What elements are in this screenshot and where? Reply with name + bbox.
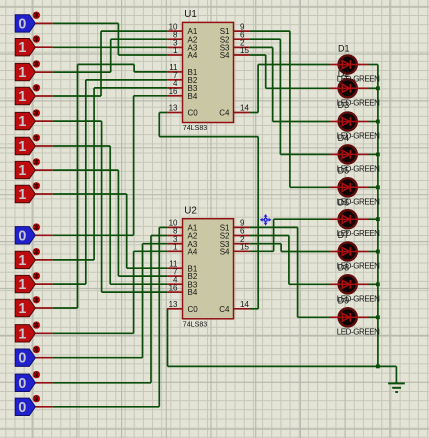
svg-text:S4: S4	[220, 247, 230, 256]
svg-text:0: 0	[18, 400, 26, 416]
U2 pin number 11 (B1)	[169, 259, 178, 268]
svg-text:14: 14	[240, 104, 249, 113]
logic state input 8 (value 1)	[15, 182, 53, 203]
D2 value label LED-GREEN	[337, 98, 380, 107]
U2 pin number 8 (A2)	[173, 227, 178, 236]
svg-text:A4: A4	[188, 51, 198, 60]
svg-text:0: 0	[18, 376, 26, 392]
U1 pin number 14 (C4)	[240, 104, 249, 113]
wire U2.S1 to LED D9	[250, 227, 330, 317]
logic state input 4 (value 1)	[15, 84, 53, 105]
svg-text:D8: D8	[338, 263, 350, 273]
junction dot at bus row D5	[376, 185, 380, 189]
junction dot at bus row D2	[376, 86, 380, 90]
svg-text:14: 14	[240, 300, 249, 309]
svg-text:0: 0	[18, 351, 26, 367]
svg-text:LED-GREEN: LED-GREEN	[337, 327, 380, 336]
wire input1 to U1.A4	[53, 23, 167, 55]
junction dot at bus row D4	[376, 153, 380, 157]
svg-text:U1: U1	[184, 9, 197, 20]
U1 pin stubs	[167, 31, 250, 112]
wire input9 to U1.B4	[53, 96, 167, 236]
svg-text:C4: C4	[219, 305, 230, 314]
svg-text:15: 15	[240, 46, 249, 55]
U1 pin name B4	[188, 92, 198, 101]
wire input7 to U2.B2	[53, 170, 167, 276]
svg-text:B4: B4	[188, 92, 198, 101]
U1 pin number 8 (A2)	[173, 30, 178, 39]
U2 pin name A3	[188, 240, 198, 249]
wire input16 to U2.A1	[53, 227, 167, 406]
U1 pin number 11 (B1)	[169, 63, 178, 72]
LED D7	[330, 242, 369, 260]
junction dot at bus row D7	[376, 250, 380, 254]
wire U2.S2 to LED D8	[250, 236, 330, 285]
U2 pin name A4	[188, 247, 198, 256]
logic state input 16 (value 0)	[15, 395, 53, 416]
logic state input 11 (value 1)	[15, 272, 53, 293]
U1 pin name B2	[188, 76, 198, 85]
U1 pin number 6 (S2)	[240, 30, 245, 39]
U1 pin name B3	[188, 84, 198, 93]
junction dot bus-ground	[376, 365, 380, 369]
wire input12 to U1.B1	[53, 64, 167, 308]
U2 pin stubs	[167, 227, 250, 308]
svg-text:1: 1	[18, 89, 26, 105]
U2 pin number 4 (B3)	[173, 275, 178, 284]
wire U1.S2 to LED D4	[250, 39, 330, 154]
logic state input 15 (value 0)	[15, 371, 53, 392]
svg-text:1: 1	[18, 253, 26, 269]
wire input6 to U2.B3	[53, 146, 167, 284]
U1 pin number 16 (B4)	[169, 87, 178, 96]
U2 pin number 1 (A4)	[173, 243, 178, 252]
svg-text:1: 1	[18, 187, 26, 203]
wire input4 to U1.A1	[53, 31, 167, 96]
svg-text:74LS83: 74LS83	[183, 320, 208, 328]
wire input15 to U2.A2	[53, 236, 167, 383]
svg-text:1: 1	[18, 114, 26, 130]
U2 pin name A2	[188, 232, 198, 241]
U1 pin name S3	[220, 44, 230, 53]
logic state input 14 (value 0)	[15, 346, 53, 367]
svg-text:1: 1	[173, 243, 178, 252]
svg-text:D9: D9	[338, 296, 350, 306]
D5 value label LED-GREEN	[337, 197, 380, 206]
logic state input 10 (value 1)	[15, 248, 53, 269]
U1 value label 74LS83	[183, 124, 208, 132]
U2 pin name S2	[220, 232, 230, 241]
junction dot at bus row D9	[376, 315, 380, 319]
U2 pin name B3	[188, 280, 198, 289]
U2 value label 74LS83	[183, 320, 208, 328]
svg-text:D5: D5	[338, 166, 350, 176]
svg-text:A4: A4	[188, 247, 198, 256]
wire U1.S4 to LED D2	[250, 55, 330, 88]
wire input11 to U1.B2	[53, 80, 167, 284]
wire input13 to U2.A4	[53, 251, 167, 333]
svg-text:16: 16	[169, 87, 178, 96]
D2 reference label	[338, 69, 350, 79]
svg-text:D3: D3	[338, 100, 350, 110]
wire U2.C4 to U1.C0 (end-around cascade)	[159, 113, 258, 309]
junction dot at bus row D6	[376, 217, 380, 221]
D6 reference label	[338, 198, 350, 208]
LED D9	[330, 308, 369, 326]
logic state input 7 (value 1)	[15, 158, 53, 179]
U1 pin number 2 (S3)	[240, 39, 245, 48]
U2 pin number 6 (S2)	[240, 227, 245, 236]
junction dot at bus row D8	[376, 282, 380, 286]
svg-text:D4: D4	[338, 133, 350, 143]
D7 value label LED-GREEN	[337, 262, 380, 271]
wire U1.S1 to LED D5	[250, 31, 330, 187]
LED D1	[330, 55, 369, 73]
wire LED D7 cathode to bus	[369, 251, 378, 253]
U2 pin name B2	[188, 272, 198, 281]
D6 value label LED-GREEN	[337, 229, 380, 238]
D8 reference label	[338, 263, 350, 273]
U2 pin name S3	[220, 240, 230, 249]
U2 reference label	[184, 206, 197, 217]
U2 pin number 9 (S1)	[240, 219, 245, 228]
svg-text:13: 13	[169, 300, 178, 309]
LED D8	[330, 275, 369, 293]
wire U2.S4 to LED D6	[250, 219, 330, 251]
D3 reference label	[338, 100, 350, 110]
U1 pin name C0	[188, 109, 199, 118]
wire LED D8 cathode to bus	[369, 283, 378, 285]
wire LED D9 cathode to bus	[369, 316, 378, 318]
wire input5 to U2.B4	[53, 121, 167, 292]
D9 value label LED-GREEN	[337, 327, 380, 336]
LED D2	[330, 79, 369, 97]
U2 pin number 13 (C0)	[169, 300, 178, 309]
logic state input 12 (value 1)	[15, 296, 53, 317]
svg-text:U2: U2	[184, 206, 197, 217]
wire LED cathode bus	[369, 65, 378, 367]
svg-text:0: 0	[18, 16, 26, 32]
svg-text:0: 0	[18, 228, 26, 244]
svg-text:13: 13	[169, 104, 178, 113]
ground	[388, 383, 405, 392]
svg-text:C0: C0	[188, 109, 199, 118]
U1 pin name S4	[220, 51, 230, 60]
svg-text:D7: D7	[338, 230, 350, 240]
U1 pin number 13 (C0)	[169, 104, 178, 113]
D9 reference label	[338, 296, 350, 306]
4-bit adder U2 74LS83 body	[183, 219, 234, 319]
svg-text:C0: C0	[188, 305, 199, 314]
U2 pin name C0	[188, 305, 199, 314]
D4 value label LED-GREEN	[337, 164, 380, 173]
svg-text:74LS83: 74LS83	[183, 124, 208, 132]
4-bit adder U1 74LS83 body	[183, 22, 234, 122]
U1 pin number 4 (B3)	[173, 79, 178, 88]
svg-text:16: 16	[169, 283, 178, 292]
U2 pin number 3 (A3)	[173, 235, 178, 244]
U2 pin name C4	[219, 305, 230, 314]
D7 reference label	[338, 230, 350, 240]
U1 pin number 1 (A4)	[173, 46, 178, 55]
U2 pin name B4	[188, 288, 198, 297]
junction dot at bus row D3	[376, 120, 380, 124]
U2 pin number 7 (B2)	[173, 267, 178, 276]
logic state input 6 (value 1)	[15, 134, 53, 155]
U2 pin name S4	[220, 247, 230, 256]
wire U1.C4 to LED D1	[250, 65, 330, 113]
U2 pin number 14 (C4)	[240, 300, 249, 309]
svg-text:1: 1	[173, 46, 178, 55]
U1 reference label	[184, 9, 197, 20]
LED D4	[330, 145, 369, 163]
wire input3 to U1.A2	[53, 39, 167, 72]
U1 pin number 15 (S4)	[240, 46, 249, 55]
D4 reference label	[338, 133, 350, 143]
U2 pin name A1	[188, 224, 198, 233]
svg-text:1: 1	[18, 65, 26, 81]
svg-text:D1: D1	[338, 44, 350, 54]
D1 reference label	[338, 44, 350, 54]
U1 pin name A1	[188, 27, 198, 36]
svg-text:D2: D2	[338, 69, 350, 79]
svg-text:1: 1	[18, 277, 26, 293]
U2 pin name B1	[188, 264, 198, 273]
U1 pin number 10 (A1)	[169, 22, 178, 31]
logic state input 1 (value 0)	[15, 12, 53, 33]
wire input2 to U1.A3	[53, 46, 167, 48]
U1 pin number 9 (S1)	[240, 22, 245, 31]
wire U1.S3 to LED D3	[250, 47, 330, 121]
svg-text:15: 15	[240, 243, 249, 252]
U2 pin number 10 (A1)	[169, 219, 178, 228]
LED D6	[330, 210, 369, 228]
U2 pin number 2 (S3)	[240, 235, 245, 244]
wire LED D4 cathode to bus	[369, 153, 378, 155]
wire LED D5 cathode to bus	[369, 186, 378, 188]
U2 pin name S1	[220, 224, 230, 233]
wire LED D3 cathode to bus	[369, 121, 378, 123]
logic state input 5 (value 1)	[15, 109, 53, 130]
svg-text:C4: C4	[219, 109, 230, 118]
svg-text:1: 1	[18, 301, 26, 317]
U1 pin number 3 (A3)	[173, 39, 178, 48]
U1 pin name C4	[219, 109, 230, 118]
D5 reference label	[338, 166, 350, 176]
svg-text:1: 1	[18, 326, 26, 342]
wire U2.S3 to LED D7	[250, 244, 330, 252]
U1 pin name S1	[220, 27, 230, 36]
svg-text:1: 1	[18, 163, 26, 179]
U1 pin name A4	[188, 51, 198, 60]
LED D3	[330, 112, 369, 130]
svg-text:1: 1	[18, 40, 26, 56]
svg-text:S4: S4	[220, 51, 230, 60]
svg-text:1: 1	[18, 139, 26, 155]
U2 pin number 15 (S4)	[240, 243, 249, 252]
svg-text:B4: B4	[188, 288, 198, 297]
logic state input 3 (value 1)	[15, 60, 53, 81]
logic state input 9 (value 0)	[15, 223, 53, 244]
U1 pin name B1	[188, 68, 198, 77]
wire input14 to U2.A3	[53, 244, 167, 358]
U2 pin number 16 (B4)	[169, 283, 178, 292]
wire input8 to U2.B1	[53, 194, 167, 268]
logic state input 2 (value 1)	[15, 35, 53, 56]
D3 value label LED-GREEN	[337, 132, 380, 141]
U1 pin name S2	[220, 35, 230, 44]
logic state input 13 (value 1)	[15, 321, 53, 342]
U1 pin number 7 (B2)	[173, 71, 178, 80]
svg-text:D6: D6	[338, 198, 350, 208]
LED D5	[330, 178, 369, 196]
cursor origin marker	[260, 214, 272, 226]
wire input10 to U1.B3	[53, 88, 167, 260]
U1 pin name A2	[188, 35, 198, 44]
D1 value label LED-GREEN	[337, 75, 380, 84]
wire LED D2 cathode to bus	[369, 87, 378, 89]
D8 value label LED-GREEN	[337, 294, 380, 303]
U1 pin name A3	[188, 44, 198, 53]
wire LED D6 cathode to bus	[369, 218, 378, 220]
wire U2.C0 to ground	[167, 309, 396, 384]
